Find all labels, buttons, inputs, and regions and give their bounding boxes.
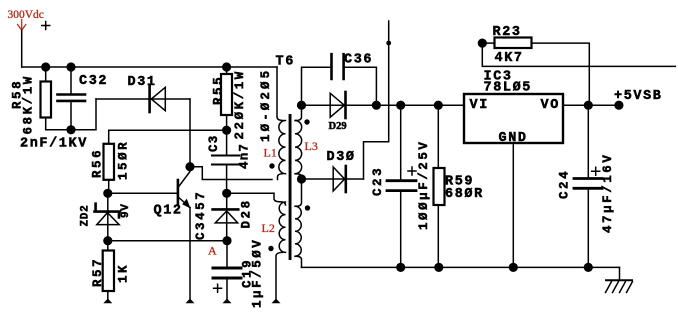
node junction collector [185, 162, 194, 171]
svg-text:L1: L1 [264, 146, 277, 160]
wire L3 top lead [296, 105, 302, 120]
wire GND pin drop [512, 143, 514, 267]
plus polarity mark near 300Vdc [42, 22, 50, 30]
svg-text:22ØK/1W: 22ØK/1W [233, 69, 247, 139]
zener diode ZD2 [80, 193, 133, 240]
ground terminal emitter [186, 299, 195, 304]
svg-text:68K/1W: 68K/1W [22, 74, 36, 134]
node junction C36 right leg [372, 101, 381, 110]
wire top bus [22, 66, 277, 68]
svg-text:C36: C36 [344, 53, 373, 68]
node junction R55/R56/C3 [222, 126, 231, 135]
svg-text:R23: R23 [493, 25, 522, 40]
node junction ZD2 bottom / node A row [103, 236, 112, 245]
capacitor C3 [207, 130, 252, 193]
svg-text:C3457: C3457 [194, 190, 208, 240]
svg-text:R56: R56 [91, 148, 105, 178]
wire node A row [108, 240, 227, 242]
transistor Q12 [154, 167, 209, 240]
svg-text:C32: C32 [79, 74, 108, 89]
svg-text:47µF/16V: 47µF/16V [601, 153, 615, 233]
resistor R23 [482, 25, 675, 105]
ground terminal R57 [103, 299, 112, 304]
diode D31 [96, 75, 190, 112]
node junction R58 top [41, 62, 50, 71]
wire secondary lower top lead [296, 179, 302, 206]
winding L2 [279, 202, 285, 252]
capacitor C19 [213, 238, 265, 308]
capacitor C32 [20, 67, 108, 152]
resistor R57 [91, 241, 131, 299]
svg-text:1µF/5ØV: 1µF/5ØV [251, 238, 265, 308]
svg-text:1K: 1K [117, 263, 131, 283]
node junction R59 top [434, 101, 443, 110]
node junction R59 bottom [434, 263, 443, 272]
transformer T6 [259, 55, 318, 304]
svg-text:4n7: 4n7 [238, 143, 252, 169]
svg-text:VO: VO [541, 98, 560, 113]
node junction L3 tap [297, 174, 306, 183]
wire L1 top lead [277, 67, 283, 121]
winding L3 [295, 121, 302, 174]
wire emitter drop [189, 208, 191, 299]
node junction C23 top [396, 101, 405, 110]
resistor R55 [211, 67, 247, 140]
node junction R23 left [478, 39, 487, 48]
node junction GND bottom [509, 263, 518, 272]
svg-text:300Vdc: 300Vdc [8, 9, 44, 21]
svg-text:VI: VI [470, 98, 489, 113]
svg-text:R55: R55 [211, 75, 225, 105]
node junction VO / C24 top [584, 101, 593, 110]
wire bottom bus [302, 266, 620, 268]
capacitor C36 [302, 53, 377, 106]
svg-text:T6: T6 [276, 55, 295, 70]
svg-text:68ØR: 68ØR [445, 187, 484, 202]
300Vdc red arrow [18, 20, 26, 31]
svg-text:L3: L3 [305, 139, 318, 153]
wire R56 top row [109, 130, 227, 144]
svg-text:D28: D28 [240, 198, 254, 228]
phase dot L1 [269, 163, 274, 168]
node terminal +5VSB [614, 101, 623, 110]
node junction C32 top [66, 62, 75, 71]
node junction C23 bottom [396, 263, 405, 272]
capacitor C23 [371, 105, 431, 267]
svg-text:4K7: 4K7 [495, 51, 524, 66]
winding L1 [279, 121, 286, 174]
wire collector to L1 bottom [190, 167, 272, 180]
svg-text:78LØ5: 78LØ5 [484, 81, 533, 96]
svg-text:A: A [208, 244, 217, 258]
ground symbol earth [606, 267, 633, 292]
node junction C24 bottom [584, 263, 593, 272]
ground terminal L2 [272, 299, 281, 304]
resistor R58 [11, 67, 52, 135]
diode D29 [302, 92, 465, 132]
node junction L3 top [297, 101, 306, 110]
svg-text:1Ø-Ø2Ø5: 1Ø-Ø2Ø5 [259, 68, 273, 142]
node junction D28 top [222, 189, 231, 198]
winding secondary lower [295, 206, 301, 256]
phase dot L2 [268, 246, 273, 251]
resistor R56 [91, 140, 131, 194]
svg-text:Q12: Q12 [154, 204, 183, 219]
wire L2 top lead [280, 202, 286, 205]
diode D30 [302, 150, 364, 192]
ground terminal C19 [223, 299, 232, 304]
wire VO row [563, 104, 619, 106]
phase dot secondary lower [305, 205, 310, 210]
svg-text:D29: D29 [329, 121, 347, 132]
wire D30 riser to off-page [364, 21, 389, 179]
svg-text:1ØØµF/25V: 1ØØµF/25V [417, 140, 431, 230]
svg-text:R57: R57 [91, 257, 105, 287]
node junction R56 bottom / base [103, 189, 112, 198]
svg-text:D3Ø: D3Ø [327, 150, 356, 165]
wire base row [108, 192, 177, 194]
node junction C32 bottom [66, 125, 75, 134]
svg-text:9V: 9V [120, 203, 132, 218]
svg-text:C24: C24 [558, 169, 572, 199]
svg-text:C3: C3 [207, 135, 221, 152]
diode D28 [213, 193, 254, 240]
svg-text:L2: L2 [262, 221, 275, 235]
svg-text:2nF/1KV: 2nF/1KV [20, 137, 88, 152]
wire D28 top to L2 [227, 193, 280, 202]
wire 300Vdc drop [21, 31, 23, 68]
svg-text:ZD2: ZD2 [80, 205, 92, 227]
node junction R55 top [222, 62, 231, 71]
wire R58/C32 bottom to D31 riser [46, 99, 96, 130]
svg-text:C23: C23 [371, 166, 385, 196]
svg-text:+5VSB: +5VSB [614, 89, 663, 104]
capacitor C24 [558, 105, 616, 267]
core bar [289, 114, 292, 260]
phase dot L3 [304, 119, 309, 124]
svg-text:D31: D31 [128, 75, 157, 90]
resistor R59 [434, 105, 484, 267]
node A junction [222, 236, 231, 245]
wire D31 to collector node [189, 99, 191, 167]
node small stub dot [386, 41, 391, 46]
op-amp regulator IC3 78L05 [464, 70, 563, 147]
svg-text:15ØR: 15ØR [117, 140, 131, 180]
